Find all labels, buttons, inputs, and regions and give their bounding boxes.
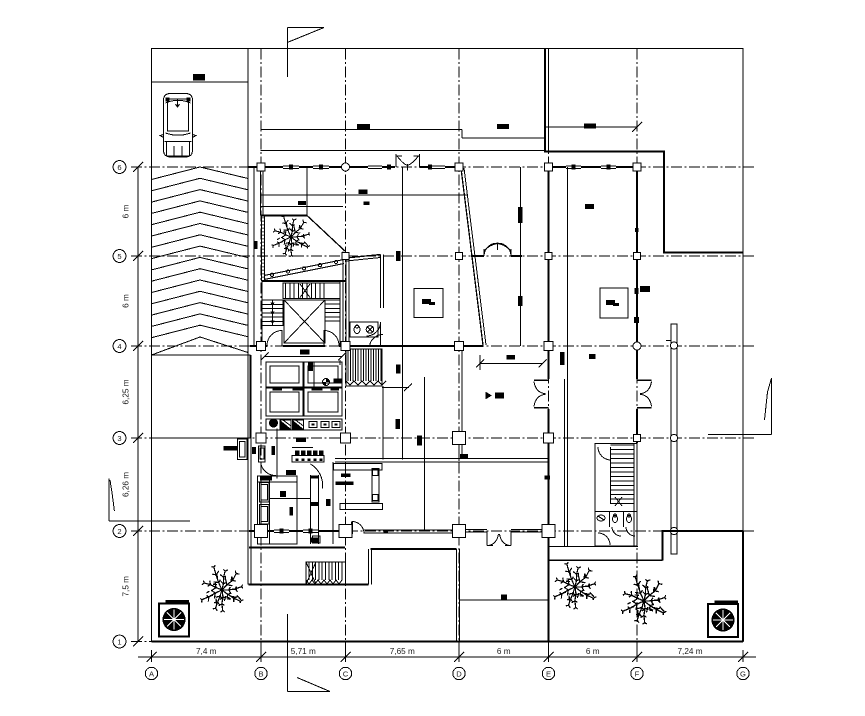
tree courtyard <box>272 215 310 257</box>
door double row2 <box>487 531 511 546</box>
equipment fan southwest <box>159 600 189 637</box>
counter edge line <box>276 429 278 479</box>
grid line D (vertical) <box>458 49 460 651</box>
courtyard D wall <box>457 549 460 642</box>
tree patio left <box>553 562 596 609</box>
niche B <box>259 446 276 462</box>
svg-text:1: 1 <box>117 637 121 646</box>
wall row2 C-D thin <box>364 529 459 533</box>
courtyard west wall <box>262 216 265 282</box>
kitchen small tags <box>334 365 401 384</box>
stair upper run <box>283 283 340 299</box>
svg-text:E: E <box>546 669 551 678</box>
column squares row3 <box>256 432 554 445</box>
stair east block <box>595 444 637 547</box>
dim line y195 <box>261 190 468 206</box>
column squares row2 <box>255 525 556 538</box>
svg-text:4: 4 <box>117 342 121 351</box>
grid line E (vertical) <box>548 49 550 651</box>
porch stair <box>306 562 346 584</box>
bottom grid bubbles A-G <box>145 667 749 679</box>
kitchen wall cabinets <box>266 362 342 387</box>
kitchen island right <box>304 387 342 416</box>
wall hall west <box>382 386 384 460</box>
wall bottom E-F <box>549 546 639 548</box>
wall bottom west <box>249 536 457 585</box>
left dimension labels <box>122 204 131 596</box>
wall F <box>636 167 638 443</box>
svg-text:7,5 m: 7,5 m <box>122 576 131 597</box>
column squares row4 <box>257 342 642 351</box>
tree southwest <box>200 565 243 612</box>
tag F wall <box>634 228 639 323</box>
section flag top <box>287 28 324 78</box>
svg-text:6 m: 6 m <box>122 294 131 308</box>
stair left run <box>262 300 283 326</box>
tag E-F upper <box>585 204 594 209</box>
parking area divider <box>152 49 249 356</box>
kitchen door arc <box>261 464 276 475</box>
dim line y129 <box>261 124 546 138</box>
arrow mark hall <box>486 392 504 399</box>
tag D line <box>518 207 523 306</box>
parking tag <box>193 74 205 81</box>
column F row3 <box>634 435 641 442</box>
wall row2 B-C <box>249 528 352 533</box>
lobby door right <box>324 331 339 346</box>
tag living <box>286 470 331 506</box>
svg-text:5,71 m: 5,71 m <box>291 647 316 656</box>
svg-text:7,4 m: 7,4 m <box>196 647 217 656</box>
lobby door left <box>267 331 282 346</box>
svg-text:F: F <box>635 669 640 678</box>
wall west upper <box>261 167 264 216</box>
wall E inner line <box>565 167 568 546</box>
svg-text:6,26 m: 6,26 m <box>122 472 131 497</box>
wall E lower <box>548 530 550 642</box>
left grid bubbles 6-1 <box>113 161 126 648</box>
svg-text:5: 5 <box>117 252 121 261</box>
svg-text:7,65 m: 7,65 m <box>390 647 415 656</box>
stair right run <box>325 300 340 321</box>
room label box E-F <box>600 288 628 318</box>
kitchen counter sink <box>266 419 342 430</box>
line interior D <box>520 167 522 346</box>
tree patio right <box>621 575 666 624</box>
wall hall east <box>424 377 426 532</box>
tag corridor <box>460 454 468 458</box>
wall stair west <box>261 281 263 345</box>
column squares row5 <box>342 253 641 260</box>
sofa L <box>258 476 311 544</box>
equipment fan southeast <box>708 601 738 638</box>
tv wall <box>311 475 319 544</box>
svg-text:3: 3 <box>117 434 121 443</box>
wall row4 <box>250 345 483 347</box>
svg-text:B: B <box>258 669 263 678</box>
grid line F (vertical) <box>636 49 638 651</box>
tag E-F mid <box>640 286 650 292</box>
door double F <box>637 380 652 407</box>
door double E <box>534 380 549 407</box>
patio divider D-E <box>460 595 549 601</box>
tag row5 C-D <box>396 251 401 261</box>
grid line 3 (horizontal) <box>131 437 756 439</box>
ramp <box>264 260 344 280</box>
corridor lines <box>335 459 548 463</box>
wall top-right notch <box>545 49 743 253</box>
site boundary <box>152 49 744 642</box>
elevator shaft <box>284 300 325 343</box>
svg-text:G: G <box>740 669 746 678</box>
dim line y363 <box>476 355 547 370</box>
tag E wall low <box>545 476 551 480</box>
wall mid vertical <box>402 167 404 460</box>
bathroom fixtures <box>350 322 383 346</box>
grid line 4 (horizontal) <box>131 345 756 347</box>
grid line 6 (horizontal) <box>131 166 756 168</box>
car <box>160 94 196 158</box>
door room C <box>367 322 381 336</box>
svg-text:6 m: 6 m <box>122 204 131 218</box>
strip inner edge <box>253 167 255 347</box>
section flag bottom <box>287 614 330 692</box>
wall row2 D-E <box>459 530 543 533</box>
grid line 1 stub <box>131 641 152 643</box>
wall west lower <box>248 346 251 585</box>
grid line 5 (horizontal) <box>131 255 756 257</box>
bottom dimension line <box>138 650 756 662</box>
dining table <box>292 448 324 463</box>
svg-text:7,24 m: 7,24 m <box>677 647 702 656</box>
sideboard U <box>334 464 383 510</box>
living divider line <box>332 462 334 544</box>
svg-text:6: 6 <box>117 163 121 172</box>
dim line y127 right <box>545 122 642 132</box>
line y150 <box>261 150 546 152</box>
wall E <box>548 167 550 530</box>
line E upper <box>547 49 549 152</box>
dim line y206 <box>261 201 344 207</box>
stair lower run C-D <box>346 349 412 391</box>
grid line C (vertical) <box>345 49 347 651</box>
canopy rects <box>224 439 248 460</box>
dim line y356 B-C <box>261 350 347 366</box>
wall row6 E-F <box>546 164 639 170</box>
wall slanted east <box>461 168 486 345</box>
column squares row6 <box>257 163 641 171</box>
kitchen island left <box>266 387 304 416</box>
room C walls <box>346 255 384 347</box>
svg-text:6,25 m: 6,25 m <box>122 379 131 404</box>
wc stalls <box>595 512 637 547</box>
wall D corridor <box>459 346 462 461</box>
section flag right <box>708 378 772 435</box>
kitchen tags <box>296 419 422 446</box>
terrace edge <box>549 559 662 561</box>
bottom dimension labels <box>196 647 703 656</box>
wall row6 B-D <box>248 164 461 215</box>
grid line 2 (horizontal) <box>131 530 756 532</box>
door row2 <box>352 522 364 535</box>
leader line grid 2 <box>109 479 190 522</box>
courtyard diagonal wall <box>307 216 346 252</box>
svg-text:6 m: 6 m <box>586 647 600 656</box>
door double row6 <box>396 154 420 171</box>
pier strip right <box>666 324 678 554</box>
svg-text:D: D <box>456 669 462 678</box>
living door arc <box>311 464 323 489</box>
wall stair east <box>340 252 343 346</box>
wall stair-block top <box>262 280 346 282</box>
grid line B (vertical) <box>260 49 262 651</box>
room label box C-D <box>414 289 443 318</box>
patio outline <box>662 531 743 642</box>
left strip lower rectangle <box>152 355 251 438</box>
courtyard top wall <box>261 215 307 217</box>
svg-text:2: 2 <box>117 527 121 536</box>
floor drain <box>323 379 330 386</box>
tag D-E row4 <box>560 352 596 365</box>
tag west wall <box>252 241 258 454</box>
svg-text:6 m: 6 m <box>497 647 511 656</box>
chevron hatch parking ramp <box>152 167 249 355</box>
door double row5 <box>471 243 522 256</box>
left dimension line <box>133 162 143 647</box>
svg-text:C: C <box>343 669 349 678</box>
